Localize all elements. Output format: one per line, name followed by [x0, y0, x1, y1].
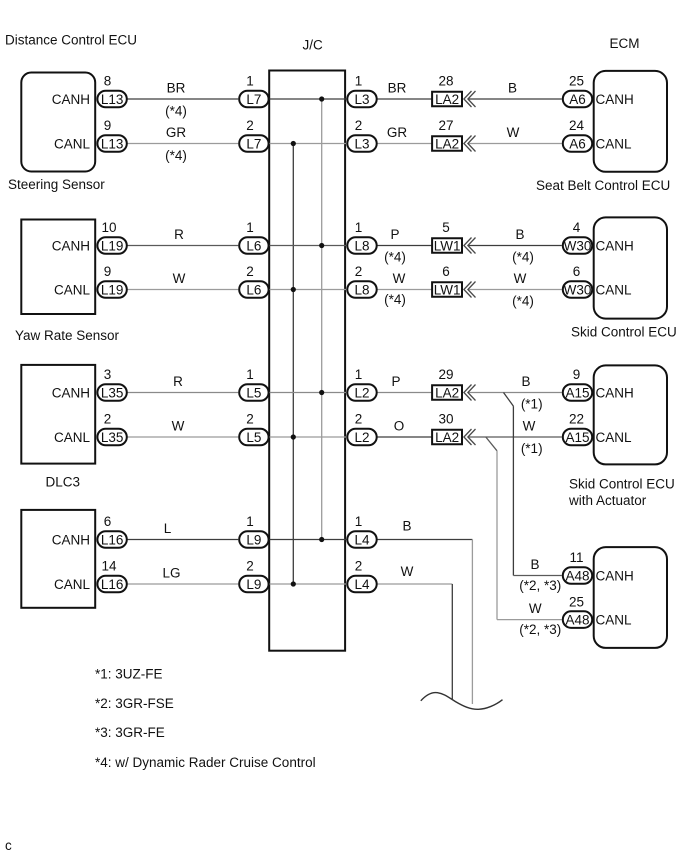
connector A15 pin 22 [563, 429, 592, 446]
wire B to A48-11 horizontal [513, 575, 561, 577]
connector L13 pin 8 (CANH) [97, 91, 126, 108]
svg-text:GR: GR [387, 125, 408, 140]
svg-text:L3: L3 [354, 137, 369, 152]
ECU box Steering Sensor (left row 2) [21, 220, 95, 315]
connector A6 pin 25 [563, 91, 592, 108]
svg-text:CANL: CANL [596, 430, 633, 445]
connector A48 pin 11 [563, 567, 592, 584]
svg-text:9: 9 [104, 118, 112, 133]
connector W30 pin 4 [563, 237, 592, 254]
svg-text:9: 9 [573, 367, 581, 382]
svg-text:*1: 3UZ-FE: *1: 3UZ-FE [95, 667, 163, 682]
svg-text:A15: A15 [565, 386, 589, 401]
connector L7 pin 1 [239, 91, 268, 108]
wire branch W diagonal from row3 CANL fork [486, 437, 497, 451]
wire BR L13-8 to L7-1 [127, 98, 238, 100]
wire P L2-1 to LA2-29 [377, 392, 431, 394]
svg-text:8: 8 [104, 74, 112, 89]
svg-text:1: 1 [355, 74, 363, 89]
connector A15 pin 9 [563, 384, 592, 401]
svg-text:2: 2 [355, 412, 363, 427]
connector L19 pin 10 [97, 237, 126, 254]
connector L13 pin 9 (CANL) [97, 135, 126, 152]
svg-text:CANL: CANL [596, 283, 633, 298]
wire row4 CANH through J/C [269, 539, 346, 541]
svg-text:c: c [5, 838, 12, 853]
svg-text:2: 2 [246, 118, 254, 133]
connector A48 pin 25 [563, 611, 592, 628]
wire B LW1-5 to W30-4 [468, 245, 562, 247]
junction dot row1 CANH bus [319, 96, 324, 101]
svg-text:CANL: CANL [596, 137, 633, 152]
connector W30 pin 6 [563, 281, 592, 298]
connector L4 pin 1 [347, 531, 376, 548]
svg-text:11: 11 [569, 550, 583, 565]
svg-text:L7: L7 [246, 92, 261, 107]
svg-text:Steering Sensor: Steering Sensor [8, 177, 105, 192]
svg-text:B: B [521, 374, 530, 389]
svg-text:9: 9 [104, 264, 112, 279]
wire W L19-9 to L6-2 [127, 289, 238, 291]
svg-text:3: 3 [104, 367, 112, 382]
wire W L4-2 horizontal [377, 583, 452, 585]
svg-text:2: 2 [246, 559, 254, 574]
svg-text:CANH: CANH [596, 386, 634, 401]
svg-text:CANL: CANL [54, 137, 91, 152]
svg-text:4: 4 [573, 220, 581, 235]
svg-text:W: W [172, 419, 185, 434]
svg-text:B: B [515, 227, 524, 242]
wire L L16-6 to L9-1 [127, 539, 238, 541]
svg-text:1: 1 [246, 74, 254, 89]
wire row1 CANH through J/C [269, 98, 346, 100]
connector LW1 pin 6 [432, 282, 462, 297]
junction dot row3 CANL bus [291, 434, 296, 439]
svg-text:CANH: CANH [52, 386, 90, 401]
svg-text:R: R [174, 227, 184, 242]
svg-text:LW1: LW1 [434, 282, 461, 297]
svg-text:Distance Control ECU: Distance Control ECU [5, 33, 137, 48]
wire B LA2-28 to A6-25 [468, 98, 562, 100]
connector L5 pin 1 [239, 384, 268, 401]
svg-text:Skid Control ECU: Skid Control ECU [569, 476, 675, 491]
svg-text:A48: A48 [565, 569, 589, 584]
svg-text:L35: L35 [101, 430, 124, 445]
wire W LA2-30 to A15-22 [468, 436, 562, 438]
wire row3 CANH through J/C [269, 392, 346, 394]
chevron marks row1 CANH [464, 91, 476, 107]
svg-text:(*4): (*4) [384, 292, 406, 307]
svg-text:L7: L7 [246, 137, 261, 152]
svg-text:W: W [523, 419, 536, 434]
svg-text:L19: L19 [101, 239, 124, 254]
chevron marks row1 CANL [464, 136, 476, 152]
svg-text:L8: L8 [354, 239, 369, 254]
ECU box ECM (right row 1) [594, 71, 667, 172]
wire R L35-3 to L5-1 [127, 392, 238, 394]
svg-text:24: 24 [569, 118, 585, 133]
svg-text:6: 6 [442, 264, 450, 279]
connector A6 pin 24 [563, 135, 592, 152]
svg-text:(*1): (*1) [521, 397, 543, 412]
svg-text:*4: w/ Dynamic Rader Cruise Co: *4: w/ Dynamic Rader Cruise Control [95, 755, 316, 770]
svg-text:1: 1 [246, 220, 254, 235]
connector L8 pin 2 [347, 281, 376, 298]
wire branch B vertical to A48-11 [512, 406, 514, 575]
ECU box Yaw Rate Sensor (left row 3) [21, 365, 95, 464]
svg-text:W: W [393, 271, 406, 286]
svg-text:27: 27 [438, 118, 453, 133]
wire W L35-2 to L5-2 [127, 436, 238, 438]
svg-text:2: 2 [355, 559, 363, 574]
svg-text:with Actuator: with Actuator [568, 493, 647, 508]
svg-text:A6: A6 [569, 92, 586, 107]
svg-text:L6: L6 [246, 239, 261, 254]
svg-text:A6: A6 [569, 137, 586, 152]
svg-text:W: W [507, 125, 520, 140]
wire branch B diagonal from row3 CANH fork [504, 393, 514, 407]
wire R L19-10 to L6-1 [127, 245, 238, 247]
connector L3 pin 1 [347, 91, 376, 108]
wire row3 CANL through J/C [269, 436, 346, 438]
connector L2 pin 1 [347, 384, 376, 401]
svg-text:B: B [508, 81, 517, 96]
svg-text:(*4): (*4) [512, 250, 534, 265]
svg-text:25: 25 [569, 74, 584, 89]
svg-text:L2: L2 [354, 430, 369, 445]
break symbol wavy line [421, 693, 503, 710]
wire B LA2-29 to A15-9 [468, 392, 562, 394]
ECU box Skid Control ECU with Actuator (right row 3) [594, 365, 667, 464]
wire CANL bus vertical inside J/C [292, 144, 294, 585]
svg-text:CANH: CANH [52, 533, 90, 548]
connector L5 pin 2 [239, 429, 268, 446]
connector L2 pin 2 [347, 429, 376, 446]
connector L8 pin 1 [347, 237, 376, 254]
connector L35 pin 2 [97, 429, 126, 446]
svg-text:1: 1 [355, 220, 363, 235]
svg-text:(*1): (*1) [521, 441, 543, 456]
connector L4 pin 2 [347, 576, 376, 593]
wire GR L3-2 to LA2-27 [377, 143, 431, 145]
junction connector J/C box [269, 71, 345, 651]
svg-text:28: 28 [438, 74, 453, 89]
wire row2 CANH through J/C [269, 245, 346, 247]
svg-text:L9: L9 [246, 577, 261, 592]
svg-text:L35: L35 [101, 386, 124, 401]
svg-text:P: P [391, 374, 400, 389]
wire branch W vertical to A48-25 [496, 451, 498, 620]
svg-text:L16: L16 [101, 533, 124, 548]
chevron marks row3 CANH [464, 385, 476, 401]
svg-text:W: W [401, 564, 414, 579]
connector L3 pin 2 [347, 135, 376, 152]
wire CANH bus vertical inside J/C [321, 99, 323, 540]
wire B L4-1 horizontal [377, 539, 472, 541]
wire LG L16-14 to L9-2 [127, 583, 238, 585]
connector LA2 pin 27 [432, 136, 462, 151]
svg-text:B: B [402, 519, 411, 534]
svg-text:*3: 3GR-FE: *3: 3GR-FE [95, 725, 165, 740]
ECU box DLC3 (left row 4) [21, 510, 95, 608]
svg-text:1: 1 [355, 514, 363, 529]
connector L7 pin 2 [239, 135, 268, 152]
svg-text:W: W [173, 271, 186, 286]
svg-text:CANL: CANL [596, 613, 633, 628]
svg-text:10: 10 [101, 220, 116, 235]
svg-text:(*4): (*4) [165, 104, 187, 119]
svg-text:L2: L2 [354, 386, 369, 401]
connector L16 pin 6 [97, 531, 126, 548]
svg-text:P: P [390, 227, 399, 242]
svg-text:BR: BR [167, 81, 186, 96]
svg-text:L5: L5 [246, 430, 261, 445]
svg-text:6: 6 [104, 514, 112, 529]
svg-text:Yaw Rate Sensor: Yaw Rate Sensor [15, 328, 120, 343]
svg-text:2: 2 [246, 412, 254, 427]
svg-text:L8: L8 [354, 283, 369, 298]
wire W L8-2 to LW1-6 [377, 289, 431, 291]
svg-text:L13: L13 [101, 137, 124, 152]
svg-text:W30: W30 [564, 239, 592, 254]
svg-text:L: L [164, 521, 172, 536]
ECU box Distance Control ECU (left row 1) [21, 73, 95, 172]
svg-text:CANH: CANH [52, 92, 90, 107]
svg-text:A48: A48 [565, 613, 589, 628]
svg-text:*2: 3GR-FSE: *2: 3GR-FSE [95, 696, 174, 711]
svg-text:GR: GR [166, 125, 187, 140]
svg-text:22: 22 [569, 412, 584, 427]
svg-text:A15: A15 [565, 430, 589, 445]
junction dot row2 CANL bus [291, 287, 296, 292]
wire P L8-1 to LW1-5 [377, 245, 431, 247]
svg-text:CANH: CANH [52, 239, 90, 254]
svg-text:W: W [529, 601, 542, 616]
svg-text:2: 2 [104, 412, 112, 427]
svg-text:LA2: LA2 [435, 430, 459, 445]
svg-text:Skid Control ECU: Skid Control ECU [571, 325, 677, 340]
svg-text:O: O [394, 419, 405, 434]
wire row2 CANL through J/C [269, 289, 346, 291]
connector LW1 pin 5 [432, 238, 462, 253]
svg-text:R: R [173, 374, 183, 389]
svg-text:(*4): (*4) [165, 148, 187, 163]
svg-text:L9: L9 [246, 533, 261, 548]
svg-text:L3: L3 [354, 92, 369, 107]
connector L16 pin 14 [97, 576, 126, 593]
connector L9 pin 1 [239, 531, 268, 548]
svg-text:25: 25 [569, 594, 584, 609]
chevron marks row2 CANH [464, 238, 476, 254]
svg-text:5: 5 [442, 220, 450, 235]
chevron marks row2 CANL [464, 282, 476, 298]
junction dot row4 CANH bus [319, 537, 324, 542]
svg-text:J/C: J/C [303, 38, 324, 53]
svg-text:(*4): (*4) [384, 250, 406, 265]
svg-text:2: 2 [355, 264, 363, 279]
svg-text:B: B [530, 557, 539, 572]
svg-text:14: 14 [101, 559, 117, 574]
wire W to A48-25 horizontal [497, 619, 562, 621]
svg-text:W30: W30 [564, 283, 592, 298]
svg-text:L4: L4 [354, 533, 370, 548]
connector LA2 pin 30 [432, 430, 462, 445]
svg-text:LA2: LA2 [435, 92, 459, 107]
svg-text:CANH: CANH [596, 239, 634, 254]
svg-text:1: 1 [355, 367, 363, 382]
svg-text:L4: L4 [354, 577, 370, 592]
wire W LW1-6 to W30-6 [468, 289, 562, 291]
svg-text:CANH: CANH [596, 92, 634, 107]
connector LA2 pin 28 [432, 92, 462, 107]
svg-text:(*4): (*4) [512, 294, 534, 309]
svg-text:L5: L5 [246, 386, 261, 401]
svg-text:(*2, *3): (*2, *3) [519, 578, 561, 593]
wire O L2-2 to LA2-30 [377, 436, 431, 438]
svg-text:W: W [514, 271, 527, 286]
wire W LA2-27 to A6-24 [468, 143, 562, 145]
wire row4 CANL through J/C [269, 583, 346, 585]
svg-text:L13: L13 [101, 92, 124, 107]
junction dot row1 CANL bus [291, 141, 296, 146]
svg-text:(*2, *3): (*2, *3) [519, 622, 561, 637]
svg-text:L16: L16 [101, 577, 124, 592]
wire row1 CANL through J/C [269, 143, 346, 145]
svg-text:29: 29 [438, 367, 453, 382]
svg-text:CANL: CANL [54, 577, 91, 592]
svg-text:LG: LG [162, 566, 180, 581]
wire BR L3-1 to LA2-28 [377, 98, 431, 100]
svg-text:CANL: CANL [54, 430, 91, 445]
svg-text:2: 2 [355, 118, 363, 133]
svg-text:1: 1 [246, 367, 254, 382]
svg-text:CANH: CANH [596, 569, 634, 584]
svg-text:DLC3: DLC3 [46, 475, 81, 490]
junction dot row4 CANL bus [291, 581, 296, 586]
wire B L4-1 vertical drop [471, 540, 473, 705]
junction dot row2 CANH bus [319, 243, 324, 248]
svg-text:LW1: LW1 [434, 238, 461, 253]
svg-text:LA2: LA2 [435, 385, 459, 400]
svg-text:CANL: CANL [54, 283, 91, 298]
ECU box unnamed (right row 4, A48) [594, 547, 667, 648]
svg-text:Seat Belt Control ECU: Seat Belt Control ECU [536, 178, 670, 193]
svg-text:ECM: ECM [610, 36, 640, 51]
connector L6 pin 1 [239, 237, 268, 254]
svg-text:1: 1 [246, 514, 254, 529]
svg-text:BR: BR [388, 81, 407, 96]
ECU box Skid Control ECU (right row 2) [594, 217, 667, 318]
connector L19 pin 9 [97, 281, 126, 298]
svg-text:6: 6 [573, 264, 581, 279]
wire W L4-2 vertical drop [451, 584, 453, 699]
wire GR L13-9 to L7-2 [127, 143, 238, 145]
connector LA2 pin 29 [432, 385, 462, 400]
svg-text:LA2: LA2 [435, 136, 459, 151]
chevron marks row3 CANL [464, 429, 476, 445]
junction dot row3 CANH bus [319, 390, 324, 395]
svg-text:L6: L6 [246, 283, 261, 298]
connector L9 pin 2 [239, 576, 268, 593]
svg-text:30: 30 [438, 412, 453, 427]
svg-text:L19: L19 [101, 283, 124, 298]
connector L6 pin 2 [239, 281, 268, 298]
connector L35 pin 3 [97, 384, 126, 401]
svg-text:2: 2 [246, 264, 254, 279]
